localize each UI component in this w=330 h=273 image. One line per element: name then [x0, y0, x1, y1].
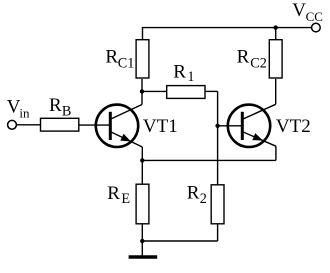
- svg-text:R: R: [237, 46, 250, 67]
- node ground junction: [140, 239, 144, 243]
- terminal VCC: [312, 23, 321, 32]
- ground: [129, 255, 158, 258]
- node collector VT1 junction: [140, 89, 144, 93]
- svg-text:1: 1: [187, 69, 194, 85]
- transistor VT1: [96, 91, 143, 160]
- label R1: [173, 62, 194, 86]
- wire Vin to RB: [16, 124, 40, 126]
- svg-text:V: V: [292, 0, 306, 21]
- wire bottom return: [142, 240, 217, 242]
- label RE: [107, 183, 130, 207]
- resistor RC1: [136, 40, 149, 78]
- svg-text:VT1: VT1: [143, 116, 178, 137]
- wire RB to VT1 base: [79, 124, 111, 126]
- resistor RC2: [269, 40, 282, 78]
- wire VT2 base: [218, 125, 243, 127]
- node emitter VT1 junction: [140, 158, 144, 162]
- resistor RE: [136, 184, 149, 224]
- wire RC1 top stub: [142, 28, 144, 40]
- resistor R2: [211, 185, 224, 224]
- label R2: [187, 183, 207, 208]
- wire mid vertical R1 to R2: [217, 91, 219, 184]
- node RC2 supply junction: [274, 25, 278, 29]
- wire emitter rail: [142, 159, 276, 161]
- label VCC: [292, 0, 323, 24]
- wire RE top stub: [141, 160, 143, 184]
- wire RC1 bottom to collector node: [141, 79, 143, 92]
- wire RE bottom to ground: [141, 224, 143, 256]
- svg-text:C1: C1: [118, 56, 135, 72]
- resistor RB: [41, 118, 79, 131]
- wire R1 right: [205, 90, 218, 92]
- svg-text:B: B: [62, 104, 71, 120]
- svg-text:VT2: VT2: [276, 116, 311, 137]
- svg-text:E: E: [121, 191, 130, 207]
- svg-text:R: R: [107, 183, 120, 204]
- label Vin: [7, 97, 30, 121]
- wire top supply rail: [142, 27, 312, 29]
- svg-text:R: R: [187, 183, 200, 204]
- svg-text:2: 2: [200, 191, 207, 207]
- wire RC2 top stub: [275, 28, 277, 40]
- label RC2: [237, 46, 267, 71]
- wire R2 bottom stub: [217, 224, 219, 241]
- svg-text:R: R: [105, 46, 118, 67]
- node base VT2 junction: [215, 124, 219, 128]
- terminal Vin: [8, 120, 17, 129]
- svg-text:R: R: [49, 95, 62, 116]
- label RB: [49, 95, 71, 120]
- wire R1 left: [142, 90, 167, 92]
- svg-text:C2: C2: [250, 56, 267, 72]
- wire RC2 bottom to VT2 collector: [275, 79, 277, 105]
- svg-text:CC: CC: [306, 9, 323, 24]
- label RC1: [105, 46, 134, 71]
- resistor R1: [167, 86, 205, 99]
- svg-text:R: R: [173, 62, 186, 83]
- svg-text:in: in: [19, 105, 30, 120]
- transistor VT2: [228, 104, 276, 160]
